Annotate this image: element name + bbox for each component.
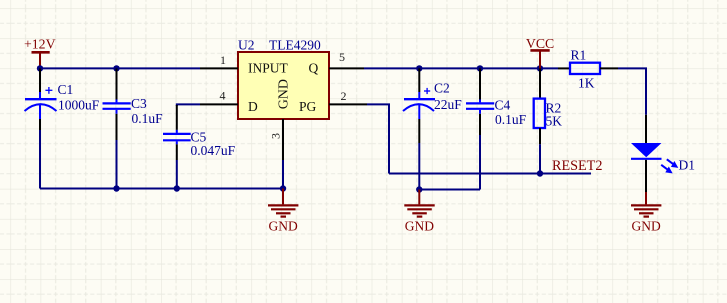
svg-text:PG: PG <box>299 99 317 114</box>
capacitor C2 <box>403 68 462 143</box>
svg-text:C4: C4 <box>495 98 511 113</box>
svg-text:INPUT: INPUT <box>248 60 289 75</box>
svg-text:VCC: VCC <box>526 36 554 51</box>
wire C1 to bottom <box>39 130 41 189</box>
node R2 bottom <box>537 170 543 176</box>
svg-text:R1: R1 <box>571 48 587 63</box>
svg-text:22uF: 22uF <box>434 97 462 112</box>
capacitor C5 <box>163 105 236 189</box>
node junction C4 top <box>477 65 483 71</box>
pin 3 <box>282 119 284 160</box>
wire C4 to bottom mid net <box>479 135 481 190</box>
wire R2 to RESET2 net <box>539 144 541 173</box>
wire RESET2 net <box>389 173 591 175</box>
wire top-left net <box>40 67 200 69</box>
svg-text:D: D <box>248 99 258 114</box>
svg-text:U2: U2 <box>238 38 255 53</box>
svg-text:GND: GND <box>277 79 292 109</box>
svg-text:5: 5 <box>339 50 345 64</box>
svg-text:1K: 1K <box>578 76 595 91</box>
node junction C5 bottom <box>174 185 180 191</box>
svg-text:Q: Q <box>309 60 319 75</box>
svg-text:3: 3 <box>269 133 283 139</box>
wire pin3 to gnd <box>282 160 284 189</box>
svg-text:RESET2: RESET2 <box>552 158 602 174</box>
power VCC <box>526 36 554 69</box>
node junction pin3/GND <box>280 185 286 191</box>
svg-text:D1: D1 <box>679 158 696 173</box>
capacitor C3 <box>103 68 164 188</box>
IC U2 TLE4290 <box>238 38 329 120</box>
svg-text:0.1uF: 0.1uF <box>495 112 527 127</box>
svg-text:C1: C1 <box>58 82 74 97</box>
svg-text:1: 1 <box>220 53 226 67</box>
pin 2 <box>329 103 367 105</box>
node junction C2 top <box>416 65 422 71</box>
svg-text:GND: GND <box>269 219 298 234</box>
capacitor C4 <box>466 68 527 135</box>
node junction +12V/C1 <box>37 65 43 71</box>
svg-text:1000uF: 1000uF <box>58 98 100 113</box>
node junction VCC <box>537 65 543 71</box>
svg-text:+12V: +12V <box>24 37 56 52</box>
resistor R2 <box>534 68 563 144</box>
capacitor C1 <box>25 68 100 130</box>
pin 4 <box>200 103 238 105</box>
wire bottom-left net <box>40 188 283 190</box>
resistor R1 <box>558 48 618 91</box>
node junction C3 top <box>113 65 119 71</box>
svg-text:5K: 5K <box>546 114 563 129</box>
svg-text:GND: GND <box>632 219 661 234</box>
wire bottom mid net <box>419 189 480 191</box>
pin 5 <box>329 67 364 69</box>
power +12V <box>24 37 56 69</box>
wire pin2 to RESET2 net <box>367 104 389 173</box>
wire C2 to bottom mid net <box>418 143 420 190</box>
pin 1 <box>200 67 238 69</box>
svg-text:4: 4 <box>220 89 226 103</box>
svg-text:C3: C3 <box>131 96 147 111</box>
ground right <box>631 192 661 234</box>
svg-text:C2: C2 <box>434 81 450 96</box>
node junction C3 bottom <box>113 185 119 191</box>
svg-text:TLE4290: TLE4290 <box>269 38 321 53</box>
wire R1 to D1 <box>618 68 646 114</box>
svg-text:2: 2 <box>341 89 347 103</box>
svg-text:0.1uF: 0.1uF <box>132 111 164 126</box>
svg-text:0.047uF: 0.047uF <box>191 143 236 158</box>
ground middle <box>404 190 434 234</box>
wire pin5 top net <box>364 67 558 69</box>
svg-text:GND: GND <box>405 219 434 234</box>
ground left <box>268 189 298 234</box>
node junction C2/GND <box>416 186 422 192</box>
diode D1 (LED) <box>631 115 695 192</box>
wire pin4 to C5 <box>177 104 200 106</box>
